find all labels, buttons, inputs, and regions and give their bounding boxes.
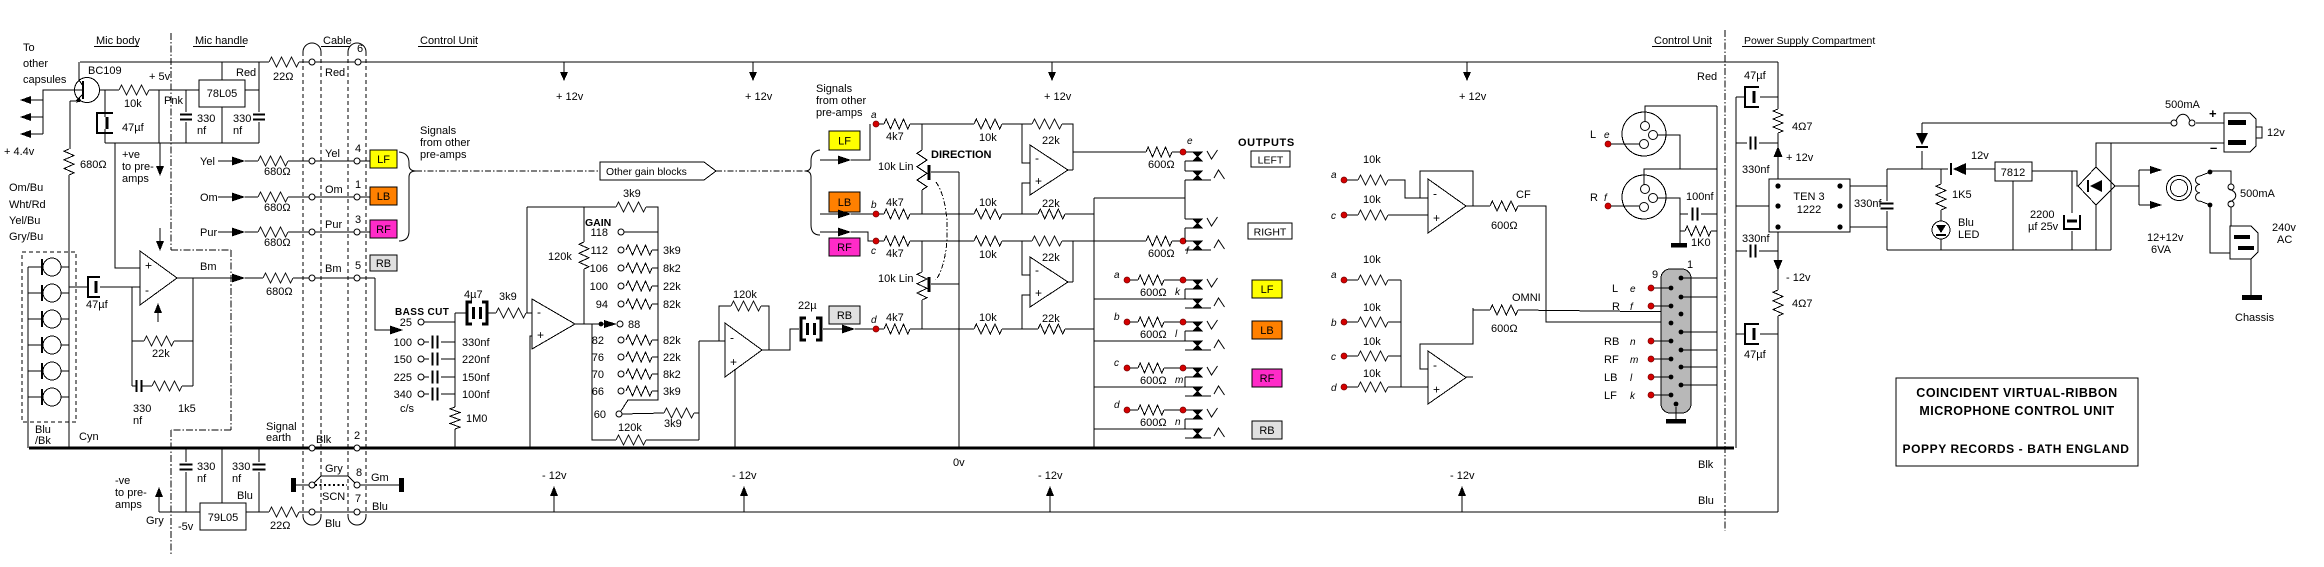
wire Pur row <box>218 231 232 233</box>
svg-text:7: 7 <box>355 493 361 505</box>
op-amp U8 CF <box>1428 179 1466 233</box>
svg-text:+ 12v: + 12v <box>556 91 584 103</box>
svg-text:a: a <box>1114 270 1120 281</box>
node LF din <box>1648 392 1654 398</box>
svg-text:amps: amps <box>122 173 149 185</box>
svg-text:3k9: 3k9 <box>663 245 681 257</box>
wire opamp A out <box>1068 169 1073 171</box>
resistor 22k fb A <box>1022 123 1032 125</box>
svg-text:22k: 22k <box>1042 313 1060 325</box>
wire bass cut bus <box>454 313 456 407</box>
svg-text:600Ω: 600Ω <box>1491 323 1518 335</box>
svg-text:Pur: Pur <box>325 219 342 231</box>
color box LB cable <box>370 187 397 205</box>
svg-text:amps: amps <box>115 499 142 511</box>
resistor 600R OMNI <box>1473 309 1490 311</box>
wire Om row <box>218 196 232 198</box>
svg-text:8k2: 8k2 <box>663 263 681 275</box>
resistor 10k a <box>974 119 1002 129</box>
DIN pin R7 <box>1679 383 1684 388</box>
node k <box>1180 277 1186 283</box>
svg-text:47µf: 47µf <box>1744 349 1767 361</box>
svg-text:70: 70 <box>592 369 604 381</box>
svg-text:8k2: 8k2 <box>663 369 681 381</box>
svg-text:+: + <box>1035 286 1042 300</box>
resistor 22k mic <box>132 340 144 342</box>
wire DIN pin to bus y350 <box>1681 349 1717 351</box>
svg-text:+: + <box>537 328 544 342</box>
svg-text:680Ω: 680Ω <box>264 202 291 214</box>
svg-text:Gm: Gm <box>371 472 389 484</box>
node Om 1 <box>309 194 315 200</box>
wire opamp B out <box>1068 281 1073 283</box>
wire DIN pin to bus y385 <box>1681 384 1717 386</box>
op-amp U3 mic <box>140 251 177 305</box>
color box LF cable <box>370 150 397 168</box>
wire dash-dot trunk right <box>716 170 806 172</box>
svg-text:n: n <box>1630 337 1636 348</box>
svg-text:to pre-: to pre- <box>115 487 147 499</box>
svg-text:25: 25 <box>400 317 412 329</box>
svg-text:- 12v: - 12v <box>1450 470 1475 482</box>
capacitor 330nf neg 1 <box>185 448 187 462</box>
node Bm 2 <box>354 275 360 281</box>
node Gm 1 <box>309 482 315 488</box>
svg-text:Gry: Gry <box>146 515 164 527</box>
jack RB tip <box>1193 410 1202 419</box>
svg-text:78L05: 78L05 <box>207 88 238 100</box>
wire LF arrow <box>820 159 838 161</box>
wire 79L05 in <box>221 448 223 503</box>
svg-text:Red: Red <box>236 67 256 79</box>
svg-text:-ve: -ve <box>115 475 130 487</box>
resistor 600R RIGHT <box>1146 236 1172 246</box>
capacitor 150nf <box>424 376 429 378</box>
node c <box>873 238 879 244</box>
node a <box>873 121 879 127</box>
DIN pin R4 <box>1679 330 1684 335</box>
diode D1 <box>1916 133 1928 145</box>
svg-text:+: + <box>1433 382 1440 396</box>
node Pur 2 <box>354 229 360 235</box>
resistor 600R RF <box>1130 367 1138 369</box>
svg-text:82k: 82k <box>663 335 681 347</box>
svg-text:22Ω: 22Ω <box>273 71 293 83</box>
connector AC mains <box>2230 226 2258 259</box>
secondary tap top <box>2208 170 2213 175</box>
resistor 680R Bm <box>263 273 293 283</box>
svg-text:Bm: Bm <box>325 263 342 275</box>
svg-text:a: a <box>1331 170 1337 181</box>
wire control unit right bus <box>1716 106 1718 448</box>
svg-text:b: b <box>1331 318 1337 329</box>
svg-text:4Ω7: 4Ω7 <box>1792 298 1812 310</box>
svg-text:Control Unit: Control Unit <box>420 35 478 47</box>
svg-text:+ 12v: + 12v <box>1044 91 1072 103</box>
svg-text:Signals: Signals <box>816 83 853 95</box>
wire secondary to fuse <box>2210 171 2231 184</box>
wire fb bottom <box>132 385 136 387</box>
wire bridge gnd <box>2095 205 2097 250</box>
svg-text:RIGHT: RIGHT <box>1254 227 1287 239</box>
svg-text:22Ω: 22Ω <box>270 520 290 532</box>
resistor 4R7 top <box>1773 109 1783 133</box>
svg-text:4k7: 4k7 <box>886 312 904 324</box>
gain switch contact 60 <box>616 411 622 417</box>
color box RF cable <box>370 220 397 238</box>
svg-text:e: e <box>1604 130 1610 141</box>
svg-text:1K0: 1K0 <box>1691 237 1711 249</box>
resistor 680R Pur <box>258 227 288 237</box>
svg-text:240v: 240v <box>2272 222 2296 234</box>
node b <box>873 211 879 217</box>
gain switch contact 100 <box>618 283 624 289</box>
svg-text:100nf: 100nf <box>1686 191 1714 203</box>
svg-text:10k: 10k <box>1363 154 1381 166</box>
wire Gry bypass <box>314 476 355 483</box>
svg-text:22k: 22k <box>663 352 681 364</box>
wire XLR R pin1 <box>1658 198 1680 214</box>
svg-text:L: L <box>1590 129 1596 141</box>
svg-text:LB: LB <box>1604 372 1617 384</box>
svg-text:RF: RF <box>1604 354 1619 366</box>
capacitor 330nf <box>424 341 429 343</box>
op-amp U6 matrix A <box>1030 145 1068 195</box>
resistor 1K5 <box>1940 169 1942 184</box>
svg-text:R: R <box>1612 301 1620 313</box>
wire emitter <box>69 101 71 149</box>
node R din <box>1648 303 1654 309</box>
resistor 1K0 xlr <box>1680 214 1685 231</box>
svg-text:nf: nf <box>232 473 242 485</box>
svg-text:66: 66 <box>592 386 604 398</box>
svg-text:- 12v: - 12v <box>1038 470 1063 482</box>
wire b to plus <box>1022 183 1030 214</box>
svg-text:Signals: Signals <box>420 125 457 137</box>
transformer T1 <box>2167 176 2192 201</box>
op-amp U4 bass cut <box>532 299 575 349</box>
svg-text:79L05: 79L05 <box>208 512 239 524</box>
color box RB 2 <box>829 306 860 324</box>
jack RF tip <box>1193 368 1202 377</box>
svg-text:10k: 10k <box>1363 254 1381 266</box>
op-amp U5 gain <box>725 323 762 377</box>
gain switch contact 94 <box>618 301 624 307</box>
svg-text:22k: 22k <box>1042 252 1060 264</box>
capsule 5 <box>43 362 61 380</box>
wire capsule bus right <box>68 175 70 448</box>
node L xlr <box>1605 141 1611 147</box>
svg-text:680Ω: 680Ω <box>266 286 293 298</box>
resistor 22R top <box>269 57 299 67</box>
wire ten3 mid left <box>1736 205 1769 207</box>
svg-text:600Ω: 600Ω <box>1140 375 1167 387</box>
resistor 10k c-cf <box>1347 214 1358 216</box>
brace right <box>805 150 820 235</box>
svg-text:+: + <box>1035 174 1042 188</box>
wire +ve to preamps arrow <box>159 143 161 166</box>
fuse F2 <box>2228 184 2234 190</box>
svg-text:60: 60 <box>594 409 606 421</box>
fuse F1 <box>2171 120 2177 126</box>
capacitor 330nf psu bottom <box>1736 250 1747 252</box>
TEN3 pin R y206 <box>1837 203 1842 208</box>
svg-text:µf 25v: µf 25v <box>2028 221 2059 233</box>
wire Blu rail <box>159 511 200 513</box>
switch contact 25 <box>418 319 424 325</box>
DIN pin R6 <box>1679 365 1684 370</box>
svg-text:150: 150 <box>394 354 412 366</box>
wiper node 88 <box>599 322 604 327</box>
svg-text:4k7: 4k7 <box>886 197 904 209</box>
wire gain sum node <box>698 341 700 440</box>
wire psu inner vertical <box>1735 97 1737 448</box>
svg-text:OMNI: OMNI <box>1512 292 1541 304</box>
bridge rectifier <box>2078 167 2115 205</box>
svg-text:10k: 10k <box>1363 194 1381 206</box>
svg-text:106: 106 <box>590 263 608 275</box>
wire +12v out <box>1922 122 2171 124</box>
resistor 3k9 gain top <box>616 202 646 212</box>
svg-text:3k9: 3k9 <box>664 418 682 430</box>
capsule 1 <box>43 258 61 276</box>
svg-text:e: e <box>1187 136 1193 147</box>
wire SCN dotted <box>315 484 347 486</box>
svg-text:LF: LF <box>1604 390 1617 402</box>
wire OMNI line <box>1518 310 1681 312</box>
jack LEFT sleeve <box>1184 161 1186 171</box>
wire led box bottom <box>1887 249 2111 251</box>
wire bridge to primary <box>2115 185 2139 187</box>
svg-text:RF: RF <box>837 242 852 254</box>
svg-text:–: – <box>2210 140 2217 155</box>
svg-text:100: 100 <box>590 281 608 293</box>
wire Bm down to bass cut <box>375 278 390 330</box>
svg-text:10k: 10k <box>1363 336 1381 348</box>
svg-text:c: c <box>1331 211 1336 222</box>
wire wiper ground <box>958 172 960 448</box>
node e <box>1180 149 1186 155</box>
svg-text:+ve: +ve <box>122 149 140 161</box>
supply arrow mic opamp neg <box>157 313 159 322</box>
wire 120k bottom left <box>592 324 616 440</box>
capacitor 47uf mic <box>104 90 106 117</box>
node a cf <box>1341 177 1347 183</box>
wire 0v rail (Blk) <box>29 447 1734 450</box>
supply arrow -12v psu <box>1774 260 1783 271</box>
svg-text:82k: 82k <box>663 299 681 311</box>
capacitor 330nf mic 1 <box>185 90 187 112</box>
svg-text:330: 330 <box>233 113 251 125</box>
svg-text:a: a <box>871 110 877 121</box>
svg-text:4µ7: 4µ7 <box>464 289 483 301</box>
svg-text:330nf: 330nf <box>1854 198 1882 210</box>
svg-text:500mA: 500mA <box>2165 99 2201 111</box>
resistor 10k c <box>974 236 1002 246</box>
wire LB arrow <box>820 213 838 215</box>
svg-text:2: 2 <box>354 430 360 442</box>
wire OMNI out <box>1466 376 1473 378</box>
svg-text:10k: 10k <box>1363 368 1381 380</box>
resistor 680R Om <box>258 192 288 202</box>
arrow to capsule 2 <box>31 116 43 118</box>
svg-text:330: 330 <box>197 461 215 473</box>
title box <box>1896 378 2138 466</box>
svg-text:+ 12v: + 12v <box>1459 91 1487 103</box>
svg-text:c/s: c/s <box>400 403 415 415</box>
svg-text:2200: 2200 <box>2030 209 2054 221</box>
svg-text:+ 12v: + 12v <box>1786 152 1814 164</box>
capacitor 100nf <box>424 393 429 395</box>
svg-text:TEN 3: TEN 3 <box>1793 191 1824 203</box>
capacitor 330nf mic 2 <box>258 62 260 112</box>
svg-text:3k9: 3k9 <box>663 386 681 398</box>
svg-text:b: b <box>871 200 877 211</box>
output color box RF <box>1252 369 1282 387</box>
svg-text:capsules: capsules <box>23 74 67 86</box>
output color box LB <box>1252 321 1282 339</box>
svg-text:680Ω: 680Ω <box>264 237 291 249</box>
wire mic feedback left <box>131 287 133 386</box>
connector DIN <box>1661 269 1691 413</box>
capacitor 330nf fb <box>135 380 137 392</box>
node a out <box>1124 277 1130 283</box>
wire DIN pin to bus y367 <box>1681 366 1717 368</box>
capacitor 2200uf <box>2071 171 2073 213</box>
wire Gm right <box>360 484 399 486</box>
svg-text:Blk: Blk <box>1698 459 1714 471</box>
node n <box>1180 407 1186 413</box>
color box RB cable <box>370 255 397 271</box>
resistor 600R LB <box>1130 321 1138 323</box>
svg-text:pre-amps: pre-amps <box>816 107 863 119</box>
node m <box>1180 365 1186 371</box>
regulator U2 78L05 <box>199 80 245 107</box>
arrow to capsule 1 <box>31 99 43 101</box>
node LB din <box>1648 374 1654 380</box>
svg-text:- 12v: - 12v <box>1786 272 1811 284</box>
svg-text:330: 330 <box>232 461 250 473</box>
svg-text:Wht/Rd: Wht/Rd <box>9 199 46 211</box>
resistor 3k9 input <box>496 308 526 318</box>
svg-text:330nf: 330nf <box>1742 233 1770 245</box>
gang coupling (dash-dot curve) <box>936 182 947 280</box>
svg-text:118: 118 <box>590 227 608 239</box>
wire DIN pin to bus y332 <box>1681 331 1717 333</box>
svg-text:RF: RF <box>1260 373 1275 385</box>
wire opamp4 plus ground <box>530 336 532 448</box>
svg-text:3k9: 3k9 <box>623 188 641 200</box>
wire psu neg vertical <box>1777 232 1779 290</box>
wire opamp5 plus ground <box>734 369 736 448</box>
svg-text:LF: LF <box>1261 284 1274 296</box>
svg-text:+: + <box>1433 211 1440 225</box>
secondary tap bottom <box>2208 203 2213 208</box>
gain switch contact 106 <box>618 265 624 271</box>
cable connector arc bottom 1 <box>303 516 321 525</box>
svg-text:-: - <box>537 305 541 319</box>
svg-text:LED: LED <box>1958 229 1979 241</box>
svg-text:150nf: 150nf <box>462 372 490 384</box>
svg-text:8: 8 <box>356 467 362 479</box>
svg-text:Yel: Yel <box>200 156 215 168</box>
wire XLR R pin2 <box>1644 169 1717 185</box>
DIN pin L1 <box>1669 286 1674 291</box>
svg-text:DIRECTION: DIRECTION <box>931 149 992 161</box>
separator mic body / mic handle (dash-dot) <box>170 33 172 250</box>
DIN pin L3 <box>1669 321 1674 326</box>
wire Yel row <box>218 160 232 162</box>
gain switch contact 76 <box>618 354 624 360</box>
wire secondary bottom <box>2210 205 2230 253</box>
svg-text:Om/Bu: Om/Bu <box>9 182 43 194</box>
svg-text:LEFT: LEFT <box>1258 155 1284 167</box>
svg-text:600Ω: 600Ω <box>1491 220 1518 232</box>
resistor 4k7 d <box>879 328 884 330</box>
svg-text:b: b <box>1114 312 1120 323</box>
jack LEFT tip <box>1193 152 1202 161</box>
wire 78L05 top <box>221 62 223 80</box>
svg-text:10k: 10k <box>979 312 997 324</box>
node a omni <box>1341 277 1347 283</box>
svg-text:c: c <box>871 246 876 257</box>
ground DIN <box>1675 407 1677 419</box>
svg-text:-: - <box>1433 358 1437 372</box>
svg-text:120k: 120k <box>733 289 757 301</box>
wire CF line lower <box>1546 310 1671 322</box>
svg-text:500mA: 500mA <box>2240 188 2276 200</box>
node cable red 1 <box>309 59 315 65</box>
svg-text:330nf: 330nf <box>1742 164 1770 176</box>
gain switch contact 118 <box>618 229 624 235</box>
gain switch contact 82 <box>618 337 624 343</box>
svg-text:6: 6 <box>357 43 363 55</box>
terminal Gm left <box>291 478 296 492</box>
wire Gm left <box>296 484 309 486</box>
color box LB 2 <box>829 192 860 212</box>
svg-text:Gry: Gry <box>325 463 343 475</box>
output box LEFT <box>1251 151 1290 167</box>
svg-text:600Ω: 600Ω <box>1148 159 1175 171</box>
wire bias to opamp+ <box>115 143 140 268</box>
node cable blk 2 <box>354 445 360 451</box>
svg-text:Chassis: Chassis <box>2235 312 2275 324</box>
resistor 10k d <box>974 324 1002 334</box>
svg-text:Mic handle: Mic handle <box>195 35 248 47</box>
wire ten3 out bottom <box>1850 226 1887 228</box>
cable connector arc bottom 2 <box>348 516 366 525</box>
resistor 120k feedback <box>719 306 731 341</box>
svg-text:100nf: 100nf <box>462 389 490 401</box>
svg-text:600Ω: 600Ω <box>1140 287 1167 299</box>
svg-text:22k: 22k <box>663 281 681 293</box>
svg-text:680Ω: 680Ω <box>80 159 107 171</box>
svg-text:Blu: Blu <box>1698 495 1714 507</box>
svg-text:+: + <box>730 355 737 369</box>
transformer secondary <box>2196 176 2201 201</box>
svg-text:Om: Om <box>200 192 218 204</box>
node R xlr <box>1605 203 1611 209</box>
resistor 3k9 gain 60 <box>664 408 694 418</box>
resistor 10k b-omni <box>1347 321 1358 323</box>
svg-text:120k: 120k <box>618 422 642 434</box>
jack RB sleeve <box>1094 428 1185 430</box>
svg-text:600Ω: 600Ω <box>1148 248 1175 260</box>
-12v feed arrow 1 <box>553 496 555 512</box>
ground xlr <box>1679 231 1681 243</box>
svg-text:R: R <box>1590 192 1598 204</box>
svg-text:1k5: 1k5 <box>178 403 196 415</box>
